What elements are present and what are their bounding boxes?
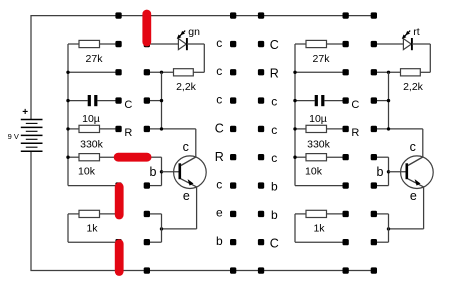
battery 9 V: [31, 16, 375, 120]
svg-text:R: R: [215, 150, 224, 164]
svg-text:e: e: [410, 189, 417, 203]
LED D2 rt (right): [374, 43, 404, 45]
svg-text:C: C: [270, 236, 279, 250]
wire base network (right): [374, 156, 389, 158]
red jumper wire J2 (10k to base row): [114, 153, 152, 162]
wire LED to 2,2k (left): [203, 44, 205, 72]
solder pad dot grid: [115, 12, 377, 273]
resistor 10k (left): [68, 156, 79, 158]
wire 1k ground loop (left): [67, 214, 69, 242]
svg-text:c: c: [271, 151, 277, 165]
svg-text:c: c: [216, 177, 222, 191]
resistor 27k (left): [68, 43, 79, 45]
svg-text:c: c: [216, 64, 222, 78]
svg-text:1k: 1k: [86, 223, 98, 235]
wire left supply rail of right circuit: [294, 44, 296, 186]
svg-text:R: R: [124, 127, 132, 139]
capacitor 10µ (left): [68, 100, 88, 102]
LED light arrows (right): [403, 31, 410, 38]
svg-text:c: c: [271, 95, 277, 109]
wire left supply rail of left circuit: [67, 44, 69, 186]
wire emitter network (left): [196, 187, 198, 229]
svg-text:10µ: 10µ: [82, 113, 100, 125]
svg-text:10k: 10k: [305, 166, 323, 178]
resistor 2,2k (left): [147, 71, 174, 73]
red jumper wire J3 (emitter row to 1k): [115, 182, 124, 219]
red jumper wire J4 (1k loop to ground rail): [115, 239, 124, 276]
svg-text:2,2k: 2,2k: [403, 81, 424, 93]
svg-text:330k: 330k: [80, 138, 104, 150]
svg-text:9 V: 9 V: [8, 132, 19, 141]
svg-text:e: e: [183, 189, 190, 203]
wire base-bias row (right): [295, 71, 346, 73]
svg-text:10µ: 10µ: [309, 113, 327, 125]
wire collector bus (left): [161, 72, 163, 129]
LED D1 gn (left): [147, 43, 179, 45]
svg-text:27k: 27k: [86, 53, 104, 65]
wire base network (left): [147, 156, 162, 158]
svg-text:R: R: [351, 127, 359, 139]
capacitor 10µ (right): [295, 100, 315, 102]
wire emitter row (left): [68, 185, 119, 187]
svg-text:c: c: [183, 140, 189, 154]
svg-text:C: C: [215, 122, 224, 136]
svg-text:b: b: [271, 180, 278, 194]
resistor 27k (right): [295, 43, 306, 45]
wire emitter network (right): [423, 187, 425, 229]
LED light arrows (left): [178, 31, 185, 38]
svg-text:b: b: [271, 208, 278, 222]
resistor 330k (left): [68, 128, 79, 130]
svg-text:C: C: [124, 99, 132, 111]
resistor 10k (right): [295, 156, 306, 158]
svg-text:c: c: [410, 140, 416, 154]
red jumper wire J1 (top supply to LED row): [142, 10, 151, 47]
transistor Q2 NPN (right): [401, 156, 434, 189]
resistor 1k (right): [295, 213, 306, 215]
transistor Q1 NPN (left): [174, 156, 207, 189]
svg-text:c: c: [271, 123, 277, 137]
svg-text:b: b: [150, 165, 157, 179]
svg-text:b: b: [377, 165, 384, 179]
svg-text:10k: 10k: [78, 166, 96, 178]
wire 1k ground loop (right): [294, 214, 296, 242]
svg-text:2,2k: 2,2k: [176, 81, 197, 93]
svg-text:R: R: [270, 67, 279, 81]
resistor 1k (left): [68, 213, 79, 215]
svg-text:b: b: [216, 234, 223, 248]
wire LED to 2,2k (right): [429, 44, 431, 72]
svg-text:rt: rt: [413, 26, 419, 38]
wire emitter row (right): [295, 185, 346, 187]
svg-text:C: C: [270, 38, 279, 52]
svg-text:1k: 1k: [313, 223, 325, 235]
wire base-bias row (left): [68, 71, 119, 73]
resistor 330k (right): [295, 128, 306, 130]
svg-text:C: C: [351, 99, 359, 111]
svg-text:c: c: [216, 92, 222, 106]
svg-text:c: c: [216, 36, 222, 50]
svg-text:27k: 27k: [313, 53, 331, 65]
svg-text:gn: gn: [188, 26, 200, 38]
svg-text:+: +: [22, 107, 28, 118]
svg-text:330k: 330k: [307, 138, 331, 150]
wire collector bus (right): [388, 72, 390, 129]
resistor 2,2k (right): [374, 71, 401, 73]
svg-text:e: e: [216, 206, 223, 220]
